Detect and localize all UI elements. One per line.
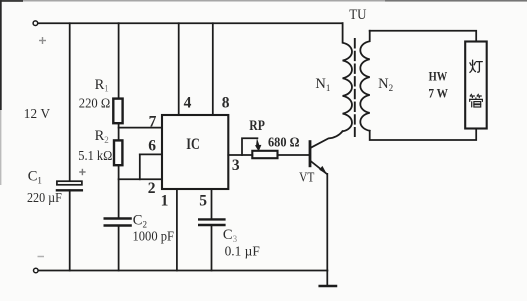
- inductor N1 primary winding: [343, 23, 352, 131]
- plus polarity C1: [79, 169, 85, 175]
- resistor RP body: [252, 151, 277, 158]
- transistor emitter arrowhead: [319, 166, 327, 174]
- wire C2 to bottom rail: [118, 226, 120, 271]
- svg-text:1: 1: [161, 192, 169, 209]
- svg-text:220 µF: 220 µF: [27, 190, 62, 205]
- svg-text:HW: HW: [429, 69, 448, 84]
- capacitor C1 electrolytic plates: [57, 181, 82, 185]
- transistor Q1 emitter: [311, 161, 327, 174]
- svg-text:2: 2: [148, 180, 156, 197]
- wire C1 branch upper: [69, 23, 71, 181]
- svg-text:8: 8: [222, 95, 230, 112]
- scan edge artifact left: [0, 0, 2, 110]
- wire pin 7: [119, 127, 162, 129]
- svg-text:TU: TU: [349, 7, 367, 23]
- svg-text:R2: R2: [95, 128, 109, 145]
- wire top rail: [38, 22, 343, 24]
- terminal - bottom: [34, 268, 39, 273]
- svg-text:1000 pF: 1000 pF: [133, 228, 175, 243]
- terminal + top: [33, 21, 38, 26]
- wire RP to base: [278, 154, 310, 156]
- transistor Q1 collector: [311, 131, 343, 148]
- wire pin6 loop vertical: [139, 154, 141, 179]
- minus polarity bottom: [38, 256, 45, 258]
- resistor R1 body: [113, 99, 122, 124]
- transistor Q1 base bar: [309, 142, 312, 166]
- wire R2 to C2: [118, 165, 120, 218]
- svg-text:C1: C1: [28, 169, 42, 186]
- svg-text:IC: IC: [186, 136, 200, 153]
- transformer core: [354, 39, 356, 136]
- svg-text:680 Ω: 680 Ω: [268, 135, 300, 150]
- svg-text:R1: R1: [95, 77, 109, 94]
- ground: [326, 271, 328, 286]
- svg-text:6: 6: [148, 137, 156, 154]
- svg-text:220 Ω: 220 Ω: [79, 96, 110, 111]
- wire secondary top: [370, 31, 477, 42]
- wire pin 3: [228, 154, 252, 156]
- lamp character guan: [470, 94, 483, 107]
- RP wiper arrow: [255, 138, 262, 151]
- scan edge artifact top: [0, 0, 527, 2]
- wire pin 5 lower: [211, 225, 213, 271]
- svg-text:5: 5: [199, 192, 207, 209]
- capacitor C3 plates: [199, 218, 224, 220]
- wire pin 8: [212, 23, 214, 115]
- resistor R2 body: [114, 140, 122, 165]
- wire emitter down: [326, 174, 328, 271]
- svg-text:7: 7: [149, 114, 157, 131]
- svg-text:7 W: 7 W: [428, 86, 448, 101]
- wire pin 5 upper: [211, 189, 213, 219]
- wire RP wiper loop: [242, 138, 257, 155]
- svg-text:C3: C3: [223, 227, 238, 244]
- svg-text:12 V: 12 V: [24, 106, 51, 121]
- wire secondary bottom: [370, 129, 477, 141]
- lamp HW tube body: [465, 42, 487, 129]
- svg-text:N1: N1: [315, 76, 330, 93]
- svg-text:N2: N2: [378, 76, 393, 93]
- svg-text:4: 4: [184, 95, 192, 112]
- svg-text:RP: RP: [249, 118, 265, 134]
- inductor N2 secondary winding: [360, 31, 369, 131]
- svg-text:C2: C2: [133, 213, 147, 230]
- wire bottom rail: [38, 270, 327, 272]
- wire pin 4: [178, 23, 180, 115]
- wire pin 1: [176, 189, 178, 271]
- svg-text:0.1 µF: 0.1 µF: [225, 244, 260, 259]
- svg-text:5.1 kΩ: 5.1 kΩ: [78, 148, 112, 163]
- wire pin 2: [119, 178, 162, 180]
- wire pin 6: [140, 153, 162, 155]
- wire R branch top: [118, 23, 120, 98]
- lamp character deng: [470, 60, 482, 72]
- plus polarity top: [39, 37, 46, 44]
- op-amp U1 IC box: [162, 115, 228, 189]
- svg-text:VT: VT: [299, 169, 315, 184]
- wire R1 to R2: [118, 123, 120, 140]
- wire C1 branch lower: [69, 190, 71, 270]
- capacitor C2 plates: [105, 217, 131, 219]
- svg-text:3: 3: [232, 157, 240, 174]
